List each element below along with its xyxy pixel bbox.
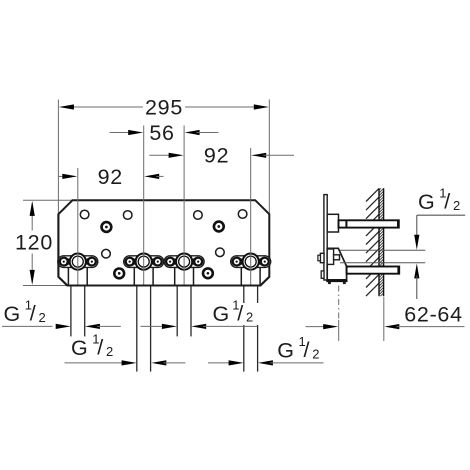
fitting 3 (x=184.1) [164, 254, 204, 337]
side G 1/2 leader and arrows [414, 215, 465, 299]
fastener lower right [203, 268, 213, 278]
svg-text:295: 295 [145, 95, 183, 119]
dimension 120 line and arrows [30, 201, 35, 285]
G 1/2 label pipe 2 [71, 332, 113, 361]
62-64 dimension line [306, 324, 465, 329]
side view top fitting body [327, 214, 338, 232]
fitting 4 (x=250.7) [231, 254, 271, 372]
svg-text:2: 2 [312, 346, 319, 361]
G 1/2 label pipe 4 [277, 334, 319, 363]
dimension 120 extension top [23, 199, 73, 201]
svg-text:2: 2 [453, 198, 460, 213]
screw hole mid right [216, 248, 225, 257]
fastener lower left [114, 269, 124, 279]
dimension 295 line [59, 104, 269, 109]
dimension 56 line [110, 130, 219, 135]
svg-text:62-64: 62-64 [404, 302, 463, 326]
G 1/2 label pipe 1 [4, 298, 46, 327]
G 1/2 dim row1 pipe3 [141, 324, 258, 329]
fitting 1 (x=77.8) [58, 254, 98, 337]
G 1/2 label pipe 3 [213, 297, 259, 326]
svg-text:/: / [444, 189, 451, 213]
center line fitting 1 [77, 168, 79, 285]
dimension 120 extension bottom [23, 285, 67, 287]
62-64 extension line left [338, 286, 340, 321]
svg-text:/: / [237, 301, 244, 325]
wall plaster hatching [366, 189, 379, 297]
svg-text:G: G [71, 336, 88, 360]
center line fitting 4 [250, 148, 252, 285]
G 1/2 dim row1 pipe1 [2, 324, 121, 329]
fastener upper right [214, 222, 224, 232]
svg-text:/: / [304, 338, 311, 362]
plate bottom edge redraw [58, 214, 269, 285]
svg-text:2: 2 [39, 310, 46, 325]
svg-text:2: 2 [106, 344, 113, 359]
fastener upper left [102, 222, 112, 232]
center line fitting 2 [143, 126, 145, 286]
side view pipe 2 [347, 266, 400, 275]
dimension 92 right line [149, 153, 294, 158]
svg-text:/: / [30, 302, 37, 326]
svg-text:92: 92 [204, 144, 229, 168]
screw hole top right [194, 211, 203, 220]
svg-text:G: G [4, 302, 21, 326]
screw hole top far-right [238, 210, 247, 219]
dimension 92 left line [59, 174, 164, 179]
G 1/2 label side view [418, 185, 460, 214]
svg-text:/: / [97, 336, 104, 360]
svg-text:G: G [418, 190, 435, 214]
side view middle screw [318, 253, 324, 262]
screw hole top left [123, 211, 132, 220]
side view pipe 1 [339, 220, 399, 229]
svg-text:92: 92 [98, 165, 123, 189]
svg-text:G: G [213, 302, 230, 326]
svg-text:G: G [277, 338, 294, 362]
screw hole top far-left [80, 210, 89, 219]
side view plate lower tab [321, 271, 324, 278]
svg-text:120: 120 [15, 230, 53, 254]
62-64 extension line right [383, 297, 385, 341]
fitting 2 (x=143.7) [124, 254, 164, 372]
mounting plate outline [58, 200, 269, 285]
G 1/2 dim row2 pipe2 [65, 360, 186, 365]
svg-text:56: 56 [149, 121, 174, 145]
extension line right of plate (295 dim, x=269.3) [268, 100, 270, 216]
screw hole mid left [102, 249, 111, 258]
side view lower fitting body [326, 248, 347, 284]
G 1/2 dim row2 pipe4 [208, 360, 324, 365]
middle outlet lines [340, 250, 425, 262]
side view middle stub [327, 249, 339, 264]
extension line left of plate (295 dim, x=58.4) [57, 100, 59, 216]
svg-text:2: 2 [246, 310, 253, 325]
center line fitting 3 [183, 126, 185, 286]
wall tile band [379, 188, 384, 296]
side view plate [324, 195, 327, 280]
